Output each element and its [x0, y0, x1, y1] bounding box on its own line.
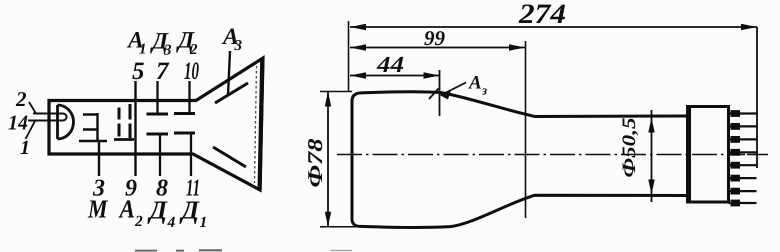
svg-text:А: А [468, 73, 482, 94]
svg-text:2: 2 [134, 213, 143, 230]
svg-text:Д: Д [148, 196, 169, 225]
svg-text:99: 99 [424, 26, 446, 50]
svg-text:А: А [118, 195, 135, 224]
svg-text:1: 1 [20, 137, 30, 159]
svg-text:з: з [481, 83, 487, 98]
svg-text:2: 2 [15, 87, 27, 111]
svg-text:274: 274 [518, 0, 566, 30]
svg-text:1: 1 [139, 42, 147, 58]
svg-text:1: 1 [200, 214, 208, 231]
svg-text:3: 3 [163, 43, 172, 59]
svg-text:М: М [87, 195, 108, 224]
svg-text:7: 7 [156, 58, 170, 85]
svg-text:Ф50,5: Ф50,5 [619, 117, 640, 178]
svg-text:44: 44 [376, 52, 404, 77]
svg-text:3: 3 [234, 38, 243, 54]
svg-text:5: 5 [132, 58, 145, 85]
svg-text:Ф78: Ф78 [303, 138, 327, 188]
svg-text:14: 14 [8, 111, 28, 135]
svg-text:2: 2 [189, 42, 198, 58]
svg-text:4: 4 [167, 214, 176, 231]
svg-text:10: 10 [184, 58, 199, 85]
svg-text:Д: Д [180, 196, 201, 225]
